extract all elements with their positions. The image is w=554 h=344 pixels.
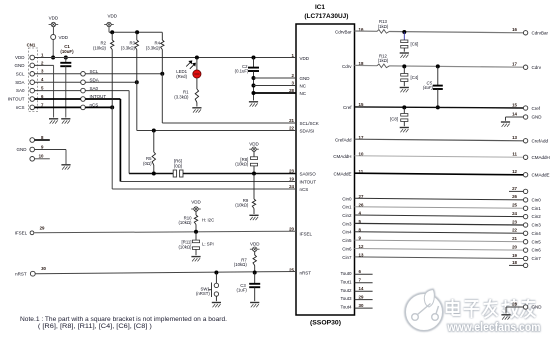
svg-text:25: 25 [512, 203, 517, 208]
svg-text:[C4]: [C4] [411, 75, 419, 80]
svg-text:(10kΩ): (10kΩ) [178, 244, 192, 249]
svg-text:22: 22 [289, 125, 294, 130]
svg-text:INTOUT: INTOUT [300, 179, 317, 184]
svg-text:H: I2C: H: I2C [202, 217, 214, 222]
svg-text:Cin2: Cin2 [532, 214, 542, 219]
svg-text:Cin1: Cin1 [532, 206, 542, 211]
svg-text:13: 13 [512, 135, 517, 140]
svg-text:(10kΩ): (10kΩ) [235, 203, 249, 208]
svg-text:SA0: SA0 [90, 86, 99, 91]
svg-text:CrefAdd: CrefAdd [532, 138, 549, 143]
svg-text:IC1: IC1 [315, 4, 325, 11]
svg-text:17: 17 [512, 62, 517, 67]
svg-text:(4uF): (4uF) [423, 85, 434, 90]
svg-text:VDD: VDD [15, 55, 25, 60]
svg-text:Cin3: Cin3 [532, 223, 542, 228]
svg-text:nCS: nCS [16, 105, 25, 110]
svg-text:GND: GND [15, 63, 26, 68]
svg-text:Cdrv: Cdrv [342, 64, 352, 69]
svg-text:(10kΩ): (10kΩ) [178, 220, 192, 225]
svg-text:22: 22 [512, 228, 517, 233]
svg-text:(Red): (Red) [176, 74, 187, 79]
svg-text:nCS: nCS [300, 187, 309, 192]
svg-text:SDA: SDA [15, 80, 24, 85]
svg-text:VDD: VDD [191, 200, 201, 205]
svg-text:INTOUT: INTOUT [8, 97, 25, 102]
svg-text:24: 24 [512, 211, 517, 216]
svg-text:CMAddE: CMAddE [532, 172, 550, 177]
svg-text:27: 27 [512, 186, 517, 191]
svg-text:20: 20 [512, 244, 517, 249]
svg-text:VDD: VDD [107, 14, 117, 19]
svg-text:15: 15 [512, 103, 517, 108]
svg-text:Cref: Cref [532, 106, 541, 111]
svg-text:Note.1 : The part with a squar: Note.1 : The part with a square bracket … [20, 317, 227, 323]
svg-text:Tout2: Tout2 [340, 288, 352, 293]
svg-text:VDD: VDD [250, 241, 260, 246]
svg-text:(3.3kΩ): (3.3kΩ) [121, 46, 136, 51]
svg-text:(10kΩ): (10kΩ) [235, 162, 249, 167]
svg-text:Tout0: Tout0 [340, 271, 352, 276]
svg-text:Cdrv: Cdrv [532, 65, 542, 70]
svg-text:21: 21 [512, 236, 517, 241]
svg-text:21: 21 [289, 118, 294, 123]
svg-text:Cref: Cref [343, 105, 352, 110]
svg-text:(SSOP30): (SSOP30) [310, 319, 341, 326]
svg-text:(0Ω): (0Ω) [174, 163, 183, 168]
svg-text:Cin3: Cin3 [342, 221, 352, 226]
svg-text:SA0/SO: SA0/SO [300, 171, 317, 176]
svg-text:30: 30 [359, 303, 364, 308]
svg-text:(10kΩ): (10kΩ) [93, 46, 107, 51]
svg-text:29: 29 [359, 294, 364, 299]
svg-text:29: 29 [40, 226, 45, 231]
svg-text:[C8]: [C8] [390, 116, 398, 121]
svg-text:( [R6], [R8], [R11], [C4], [C6: ( [R6], [R8], [R11], [C4], [C6], [C8] ) [38, 324, 152, 330]
svg-text:VDD: VDD [59, 35, 69, 40]
svg-text:CMAddH: CMAddH [532, 155, 550, 160]
svg-text:23: 23 [512, 219, 517, 224]
svg-text:CrefAdd: CrefAdd [335, 138, 352, 143]
svg-text:(1kΩ): (1kΩ) [378, 58, 389, 63]
svg-text:28: 28 [289, 88, 294, 93]
svg-text:10: 10 [39, 154, 44, 159]
svg-text:IFSEL: IFSEL [300, 231, 313, 236]
svg-text:VDD: VDD [300, 56, 310, 61]
svg-text:16: 16 [512, 27, 517, 32]
svg-text:CN1: CN1 [27, 43, 36, 48]
svg-text:[C6]: [C6] [411, 41, 419, 46]
svg-text:VDD: VDD [249, 141, 259, 146]
svg-text:VDD: VDD [49, 16, 59, 21]
svg-text:(3.3kΩ): (3.3kΩ) [174, 95, 189, 100]
svg-text:(1uF): (1uF) [237, 288, 248, 293]
svg-text:CdrvBar: CdrvBar [335, 30, 352, 35]
svg-text:NC: NC [300, 91, 307, 96]
svg-text:Tout4: Tout4 [340, 305, 352, 310]
svg-text:NC: NC [300, 83, 307, 88]
svg-text:CMAddH: CMAddH [333, 154, 351, 159]
svg-text:www.elecfans.com: www.elecfans.com [447, 320, 541, 334]
svg-text:GND: GND [300, 76, 311, 81]
svg-text:SCL: SCL [16, 71, 25, 76]
svg-text:Cin7: Cin7 [532, 256, 542, 261]
svg-text:SCL/SCK: SCL/SCK [300, 121, 319, 126]
svg-text:(LC717A30UJ): (LC717A30UJ) [304, 13, 348, 20]
svg-text:Cin1: Cin1 [342, 205, 352, 210]
svg-text:(10uF): (10uF) [60, 49, 74, 54]
svg-text:23: 23 [289, 168, 294, 173]
svg-text:(0.1uF): (0.1uF) [235, 69, 249, 74]
svg-text:Cin5: Cin5 [532, 239, 542, 244]
svg-text:12: 12 [512, 169, 517, 174]
svg-text:Cin0: Cin0 [532, 198, 542, 203]
svg-text:19: 19 [289, 176, 294, 181]
svg-text:11: 11 [512, 152, 517, 157]
svg-text:nRST: nRST [15, 272, 27, 277]
svg-text:CdrvBar: CdrvBar [532, 30, 549, 35]
svg-text:(10kΩ): (10kΩ) [234, 262, 248, 267]
svg-text:Cin6: Cin6 [342, 247, 352, 252]
svg-text:Cin7: Cin7 [342, 255, 352, 260]
svg-text:Cin6: Cin6 [532, 248, 542, 253]
svg-text:18: 18 [512, 260, 517, 265]
svg-text:GND: GND [532, 305, 543, 310]
svg-text:(nRST): (nRST) [196, 291, 210, 296]
svg-text:GND: GND [17, 147, 28, 152]
svg-text:14: 14 [359, 286, 364, 291]
svg-text:Tout1: Tout1 [340, 279, 352, 284]
svg-text:SDA: SDA [90, 77, 99, 82]
svg-text:19: 19 [512, 253, 517, 258]
svg-text:30: 30 [41, 266, 46, 271]
svg-text:Cin4: Cin4 [342, 230, 352, 235]
svg-text:28: 28 [512, 301, 517, 306]
svg-text:(0Ω): (0Ω) [143, 161, 152, 166]
svg-text:Cin4: Cin4 [532, 231, 542, 236]
svg-text:Cin2: Cin2 [342, 213, 352, 218]
svg-text:Cin0: Cin0 [342, 196, 352, 201]
svg-text:SCL: SCL [90, 69, 99, 74]
svg-text:SDA/SI: SDA/SI [300, 128, 315, 133]
svg-text:IFSEL: IFSEL [15, 231, 28, 236]
svg-text:nRST: nRST [300, 270, 312, 275]
svg-text:14: 14 [512, 111, 517, 116]
svg-text:(1kΩ): (1kΩ) [378, 24, 389, 29]
svg-text:GND: GND [532, 115, 543, 120]
svg-text:24: 24 [289, 184, 294, 189]
svg-text:L: SPI: L: SPI [202, 242, 214, 247]
svg-text:SA0: SA0 [16, 88, 25, 93]
svg-text:Cin5: Cin5 [342, 238, 352, 243]
svg-text:26: 26 [512, 194, 517, 199]
svg-text:CMAddE: CMAddE [333, 172, 351, 177]
svg-text:Tout3: Tout3 [340, 296, 352, 301]
svg-text:(3.3kΩ): (3.3kΩ) [146, 46, 161, 51]
